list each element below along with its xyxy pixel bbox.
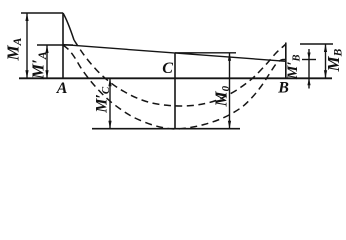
tick at sight-line level at B (M'_B) xyxy=(302,59,316,61)
dimension line M'_A xyxy=(46,46,48,79)
top tick at B attachment level xyxy=(300,43,333,45)
arrowheads M'_A xyxy=(45,45,48,53)
arrowheads M'_B (outside: above tick pointing down, below baseline pointing up) xyxy=(307,53,310,60)
arrowheads M_A (up at top tick, down at baseline) xyxy=(25,13,28,21)
right support B (vertical) xyxy=(285,43,287,79)
baseline A-C-B xyxy=(19,77,332,79)
svg-text:B: B xyxy=(277,80,289,97)
svg-text:M′A: M′A xyxy=(29,51,50,80)
left support A (vertical) xyxy=(62,13,64,78)
svg-text:C: C xyxy=(162,60,173,77)
conductor curve 2 (lower, dashed) xyxy=(63,45,286,129)
dimension line M_A xyxy=(26,14,28,79)
bottom tangent line at lowest point xyxy=(92,128,240,130)
conductor attachment segment at A (solid steep start of upper curve) xyxy=(63,13,74,40)
svg-text:A: A xyxy=(56,80,68,97)
top tick at left support top xyxy=(21,12,63,14)
svg-text:M′C: M′C xyxy=(94,86,113,114)
svg-text:M0: M0 xyxy=(212,85,233,107)
sight line a-b xyxy=(63,45,286,62)
svg-text:M′B: M′B xyxy=(285,54,303,80)
arrowheads M_0 xyxy=(228,53,231,61)
vertical line through C xyxy=(174,53,176,129)
dimension line M_B xyxy=(325,44,327,78)
conductor curve 1 (upper, dashed) xyxy=(74,40,286,106)
svg-text:MA: MA xyxy=(4,37,25,61)
dimension line M_0 xyxy=(229,53,231,129)
arrowheads M_B xyxy=(324,44,327,52)
tick for M'_A level xyxy=(37,44,73,46)
arrowheads M'_C (up at baseline from below, down at bottom line) xyxy=(108,78,111,86)
dimension line M'_B with outside stubs xyxy=(308,49,310,89)
dimension line M'_C xyxy=(109,79,111,129)
tick at sight-line level at C (top of M_0) xyxy=(175,52,236,54)
